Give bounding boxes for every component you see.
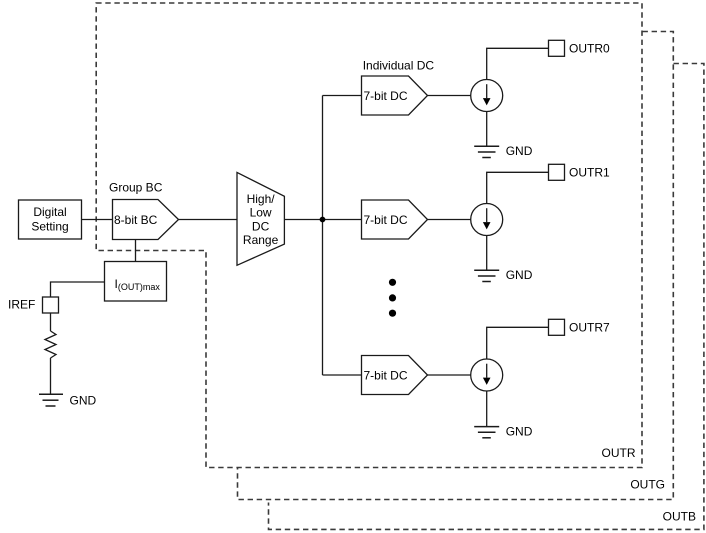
terminal IREF bbox=[43, 297, 59, 313]
ground GND row 3 bbox=[474, 427, 499, 438]
wire High/Low DC Range to 7-bit DC row 2 (through junction) bbox=[284, 219, 361, 221]
wire trunk vertical bus bbox=[322, 96, 324, 376]
terminal OUTR1 bbox=[549, 164, 565, 180]
block 8-bit BC (Group brightness control DAC) bbox=[113, 200, 179, 240]
ground GND (left, below IREF resistor) bbox=[39, 394, 63, 406]
svg-text:Digital: Digital bbox=[33, 205, 66, 219]
svg-text:7-bit DC: 7-bit DC bbox=[364, 89, 408, 103]
svg-text:OUTR7: OUTR7 bbox=[569, 320, 610, 334]
wire current source up to OUTR0 terminal bbox=[487, 48, 549, 79]
block Digital Setting bbox=[19, 200, 82, 239]
svg-text:Group BC: Group BC bbox=[109, 181, 163, 195]
svg-text:GND: GND bbox=[70, 394, 97, 408]
svg-text:Range: Range bbox=[243, 233, 279, 247]
wire current source up to OUTR1 terminal bbox=[487, 172, 549, 203]
wire current source up to OUTR7 terminal bbox=[487, 327, 549, 359]
dashed boundary OUTR bbox=[96, 3, 642, 468]
svg-text:GND: GND bbox=[506, 424, 533, 438]
wire 8-bit BC to High/Low DC Range bbox=[179, 219, 238, 221]
wire resistor to ground bbox=[50, 358, 52, 394]
svg-text:OUTR0: OUTR0 bbox=[569, 41, 610, 55]
wire I(OUT)max to IREF terminal bbox=[51, 282, 105, 297]
dashed boundary OUTB bbox=[269, 64, 704, 530]
svg-text:OUTB: OUTB bbox=[663, 510, 696, 524]
block High/Low DC Range bbox=[237, 172, 284, 265]
junction node on trunk bbox=[320, 217, 326, 223]
wire 8-bit BC to I(OUT)max bbox=[135, 240, 137, 262]
ground GND row 2 bbox=[474, 270, 499, 281]
wire 7-bit DC row 1 to current source bbox=[428, 95, 472, 97]
block 7-bit DC row 3 bbox=[362, 356, 428, 395]
svg-text:Setting: Setting bbox=[31, 220, 68, 234]
wire current source down to ground row 2 bbox=[486, 236, 488, 271]
block 7-bit DC row 2 bbox=[362, 200, 428, 239]
svg-text:IREF: IREF bbox=[8, 298, 35, 312]
svg-text:High/: High/ bbox=[247, 192, 276, 206]
svg-text:8-bit BC: 8-bit BC bbox=[114, 213, 158, 227]
svg-text:7-bit DC: 7-bit DC bbox=[364, 368, 408, 382]
current source I3 bbox=[471, 359, 503, 391]
svg-text:OUTG: OUTG bbox=[630, 478, 665, 492]
terminal OUTR7 bbox=[549, 319, 565, 335]
block 7-bit DC row 1 bbox=[362, 76, 428, 115]
block I(OUT)max bbox=[105, 262, 167, 302]
wire 7-bit DC row 3 to current source bbox=[428, 374, 472, 376]
svg-text:GND: GND bbox=[506, 144, 533, 158]
ground GND row 1 bbox=[474, 146, 499, 157]
wire IREF to resistor R bbox=[50, 313, 52, 331]
svg-text:Low: Low bbox=[250, 206, 272, 220]
terminal OUTR0 bbox=[549, 40, 565, 56]
wire trunk to 7-bit DC row 3 bbox=[323, 374, 362, 376]
wire Digital Setting to 8-bit BC bbox=[82, 219, 113, 221]
wire 7-bit DC row 2 to current source bbox=[428, 219, 472, 221]
current source I1 bbox=[471, 80, 503, 112]
svg-text:7-bit DC: 7-bit DC bbox=[364, 213, 408, 227]
svg-text:Individual DC: Individual DC bbox=[363, 59, 435, 73]
svg-text:OUTR: OUTR bbox=[602, 446, 636, 460]
svg-text:DC: DC bbox=[252, 219, 270, 233]
ellipsis dots between row 2 and row 3 bbox=[389, 279, 396, 317]
wire trunk to 7-bit DC row 1 bbox=[323, 95, 362, 97]
wire current source down to ground row 3 bbox=[486, 391, 488, 427]
svg-text:GND: GND bbox=[506, 268, 533, 282]
svg-text:OUTR1: OUTR1 bbox=[569, 165, 610, 179]
resistor R (external reference resistor) bbox=[45, 331, 56, 358]
wire current source down to ground row 1 bbox=[486, 112, 488, 147]
current source I2 bbox=[471, 204, 503, 236]
dashed boundary OUTG bbox=[238, 32, 674, 500]
